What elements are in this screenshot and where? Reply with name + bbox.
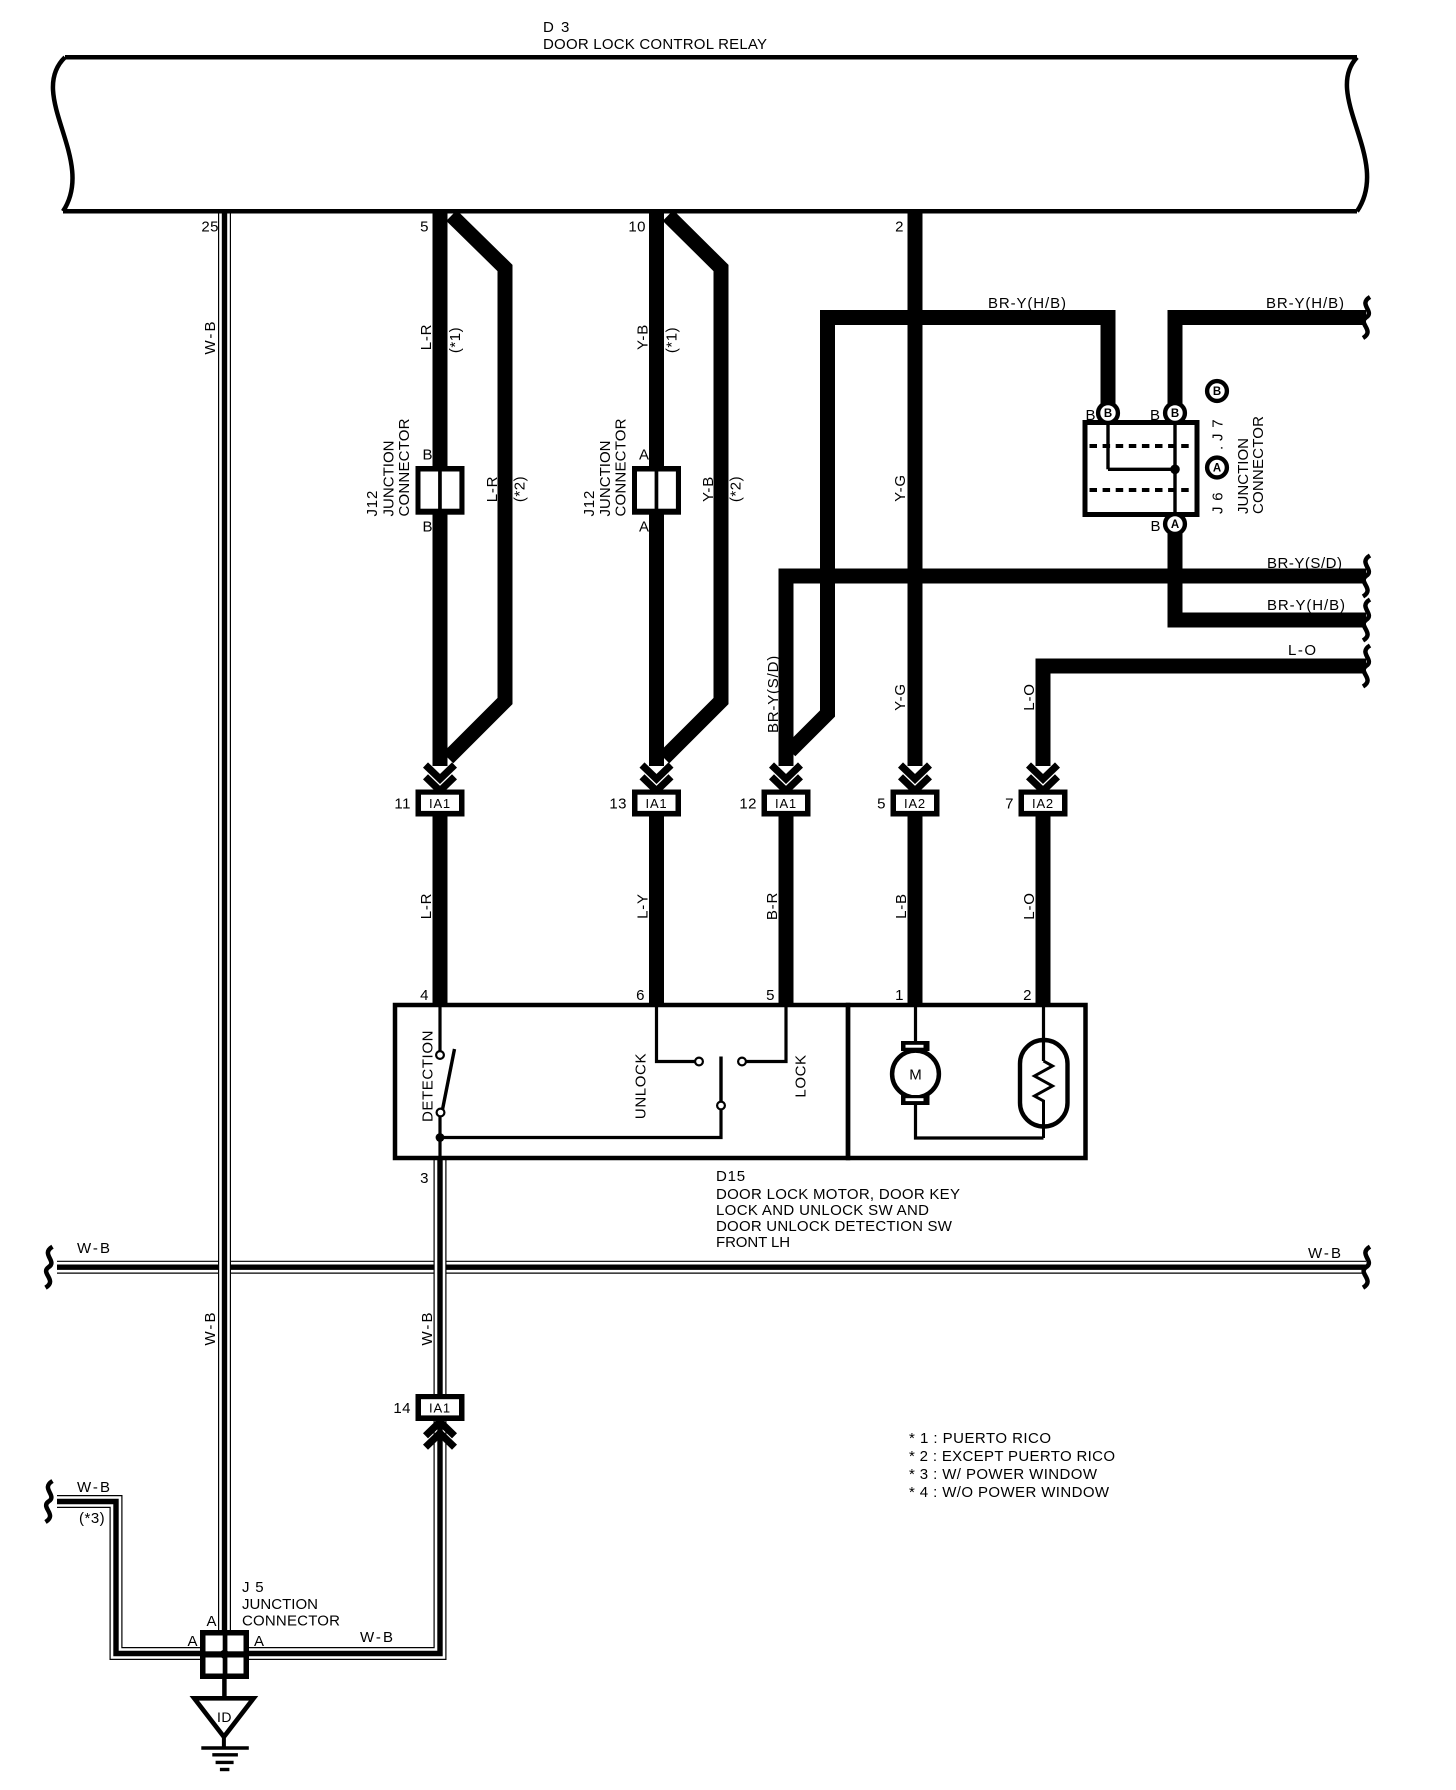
svg-text:W-B: W-B bbox=[77, 1479, 112, 1496]
svg-text:(*3): (*3) bbox=[79, 1510, 105, 1527]
svg-text:A: A bbox=[1171, 519, 1179, 531]
svg-text:A: A bbox=[206, 1613, 216, 1630]
lock-unlock blade bbox=[719, 1057, 722, 1102]
svg-text:DETECTION: DETECTION bbox=[420, 1030, 437, 1122]
svg-text:3: 3 bbox=[420, 1170, 429, 1187]
ground bar 1 bbox=[201, 1746, 249, 1749]
svg-text:BR-Y(S/D): BR-Y(S/D) bbox=[1267, 555, 1343, 572]
arrow up into IA1 pin14 bbox=[426, 1422, 455, 1436]
svg-text:JUNCTION: JUNCTION bbox=[597, 441, 614, 517]
lock-unlock pivot contact bbox=[717, 1102, 725, 1110]
svg-text:M: M bbox=[909, 1067, 922, 1084]
svg-text:Y-B: Y-B bbox=[635, 324, 652, 350]
node detection common bbox=[436, 1133, 445, 1142]
J6/J7 dashed row upper bbox=[1090, 444, 1193, 448]
svg-text:IA1: IA1 bbox=[429, 796, 451, 811]
wire D15 pin2 into resistor bbox=[1042, 1007, 1045, 1061]
motor top brush bbox=[901, 1041, 930, 1051]
svg-text:W-B: W-B bbox=[202, 319, 219, 354]
svg-text:LOCK AND UNLOCK SW AND: LOCK AND UNLOCK SW AND bbox=[716, 1202, 929, 1219]
svg-text:* 2 : EXCEPT PUERTO RICO: * 2 : EXCEPT PUERTO RICO bbox=[909, 1448, 1115, 1465]
svg-text:B: B bbox=[422, 447, 432, 464]
connector IA1 pin 14 bbox=[416, 1394, 465, 1421]
wire BR-Y(H/B) from J7 terminal B to right bbox=[1175, 318, 1366, 405]
relay D3 right break edge bbox=[1347, 57, 1367, 211]
svg-text:(*2): (*2) bbox=[512, 476, 529, 502]
svg-text:BR-Y(H/B): BR-Y(H/B) bbox=[1267, 597, 1346, 614]
relay D3 bottom edge bbox=[63, 209, 1357, 214]
wire D15 pin5 to lock contact bbox=[746, 1007, 786, 1062]
wire W-B from D15 pin 3 down and left to J5 bbox=[247, 1158, 440, 1654]
arrow into IA1 pin13 bbox=[642, 765, 671, 779]
terminal B right of J7 bbox=[1165, 403, 1185, 423]
break symbol right end of W-B bus bbox=[1363, 1247, 1370, 1288]
junction connector J5 box bbox=[200, 1630, 249, 1679]
svg-text:CONNECTOR: CONNECTOR bbox=[242, 1613, 340, 1630]
node J5 center bbox=[220, 1650, 229, 1659]
svg-text:11: 11 bbox=[394, 796, 411, 813]
svg-text:(*2): (*2) bbox=[728, 476, 745, 502]
svg-text:W-B: W-B bbox=[360, 1629, 395, 1646]
svg-text:7: 7 bbox=[1005, 796, 1014, 813]
break symbol left end of (*3) branch bbox=[46, 1481, 53, 1522]
unlock contact bbox=[695, 1058, 703, 1066]
svg-text:2: 2 bbox=[895, 219, 904, 236]
connector IA2 pin 7 bbox=[1019, 790, 1068, 817]
svg-text:B: B bbox=[1171, 408, 1179, 420]
svg-text:W-B: W-B bbox=[1308, 1245, 1343, 1262]
wire W-B from relay pin 25 down to J5 bbox=[218, 209, 231, 1656]
svg-text:W-B: W-B bbox=[202, 1310, 219, 1345]
wire L-B below IA2 pin5 bbox=[908, 814, 923, 1007]
wire J5 to ground triangle bbox=[222, 1679, 227, 1698]
svg-text:DOOR UNLOCK DETECTION SW: DOOR UNLOCK DETECTION SW bbox=[716, 1218, 953, 1235]
svg-text:* 1 : PUERTO RICO: * 1 : PUERTO RICO bbox=[909, 1430, 1051, 1447]
svg-text:(*1): (*1) bbox=[664, 327, 681, 353]
svg-text:L-R: L-R bbox=[418, 893, 435, 920]
svg-text:5: 5 bbox=[877, 796, 886, 813]
svg-text:DOOR LOCK MOTOR, DOOR KEY: DOOR LOCK MOTOR, DOOR KEY bbox=[716, 1186, 960, 1203]
svg-text:CONNECTOR: CONNECTOR bbox=[1250, 416, 1267, 514]
wire D15 pin1 to motor bbox=[914, 1007, 917, 1041]
connector IA1 pin 12 bbox=[762, 790, 811, 817]
svg-text:D 3: D 3 bbox=[543, 19, 571, 36]
detection switch lower contact bbox=[437, 1109, 445, 1117]
break symbol BR-Y(H/B) top right bbox=[1363, 297, 1370, 338]
terminal B left of J6 bbox=[1098, 403, 1118, 423]
wire L-R (*2) branch bbox=[448, 216, 505, 759]
svg-text:J 7: J 7 bbox=[1210, 419, 1227, 441]
wire W-B (*3) branch bottom left bbox=[57, 1502, 202, 1654]
break symbol BR-Y(S/D) right bbox=[1363, 556, 1370, 597]
wire Y-B main from relay pin 10 bbox=[649, 209, 664, 766]
svg-text:25: 25 bbox=[201, 219, 219, 236]
relay D3 top edge bbox=[65, 55, 1357, 60]
svg-text:A: A bbox=[639, 447, 649, 464]
svg-text:IA2: IA2 bbox=[1032, 796, 1054, 811]
J6/J7 dashed row lower bbox=[1090, 488, 1193, 492]
svg-text:* 3 : W/ POWER WINDOW: * 3 : W/ POWER WINDOW bbox=[909, 1466, 1098, 1483]
wire L-R below IA1 pin11 bbox=[433, 814, 448, 1007]
svg-text:D15: D15 bbox=[716, 1168, 746, 1185]
svg-text:W-B: W-B bbox=[419, 1310, 436, 1345]
svg-text:Y-B: Y-B bbox=[700, 476, 717, 502]
svg-text:5: 5 bbox=[766, 987, 775, 1004]
detection switch blade bbox=[442, 1049, 455, 1112]
svg-text:B: B bbox=[1150, 407, 1160, 424]
svg-text:J 5: J 5 bbox=[242, 1579, 264, 1596]
svg-text:B: B bbox=[1213, 386, 1221, 398]
svg-text:BR-Y(S/D): BR-Y(S/D) bbox=[765, 655, 782, 733]
svg-text:12: 12 bbox=[739, 796, 757, 813]
svg-text:CONNECTOR: CONNECTOR bbox=[396, 418, 413, 516]
svg-text:13: 13 bbox=[609, 796, 627, 813]
wire Y-G from relay pin 2 bbox=[908, 209, 923, 766]
svg-text:J12: J12 bbox=[364, 490, 381, 517]
svg-text:14: 14 bbox=[393, 1400, 411, 1417]
svg-text:6: 6 bbox=[636, 987, 645, 1004]
wire L-R main from relay pin 5 bbox=[433, 209, 448, 766]
svg-text:(*1): (*1) bbox=[447, 327, 464, 353]
junction connector J12 right box bbox=[632, 466, 681, 515]
svg-text:JUNCTION: JUNCTION bbox=[381, 441, 398, 517]
svg-text:FRONT LH: FRONT LH bbox=[716, 1234, 790, 1251]
svg-text:Y-G: Y-G bbox=[892, 683, 909, 711]
svg-text:L-O: L-O bbox=[1021, 683, 1038, 710]
svg-text:B: B bbox=[1150, 518, 1160, 535]
resistor obround outline bbox=[1020, 1040, 1068, 1127]
arrow into IA1 pin11 bbox=[426, 765, 455, 779]
wire BR-Y(H/B) from J6 terminal B to pin12 merge bbox=[790, 318, 1108, 752]
wire W-B ground bus horizontal bbox=[57, 1261, 1366, 1274]
svg-text:* 4 : W/O POWER WINDOW: * 4 : W/O POWER WINDOW bbox=[909, 1484, 1110, 1501]
arrow into IA1 pin12 bbox=[772, 765, 801, 779]
svg-text:IA2: IA2 bbox=[904, 796, 926, 811]
svg-text:A: A bbox=[639, 519, 649, 536]
svg-text:J12: J12 bbox=[581, 490, 598, 517]
svg-text:A: A bbox=[1213, 463, 1221, 475]
break symbol BR-Y(H/B) lower right bbox=[1363, 600, 1370, 641]
wire D15 pin6 to unlock contact bbox=[657, 1007, 696, 1062]
ground bar 4 bbox=[220, 1768, 230, 1771]
J6/J7 inner wire horizontal bbox=[1108, 468, 1175, 471]
svg-text:4: 4 bbox=[420, 987, 429, 1004]
svg-text:.: . bbox=[1210, 446, 1227, 450]
wire detection common to lock pivot bbox=[440, 1110, 721, 1138]
ground ID triangle bbox=[194, 1698, 253, 1737]
resistor zigzag bbox=[1035, 1061, 1053, 1138]
terminal A bottom of J6 bbox=[1165, 514, 1185, 534]
component D15 right box bbox=[848, 1005, 1086, 1158]
svg-text:L-R: L-R bbox=[418, 324, 435, 351]
svg-text:IA1: IA1 bbox=[429, 1401, 451, 1416]
J6/J7 inner wire right leg bbox=[1173, 425, 1176, 512]
ground stem bbox=[222, 1736, 226, 1748]
svg-text:W-B: W-B bbox=[77, 1240, 112, 1257]
arrow into IA2 pin5 bbox=[901, 765, 930, 779]
wire D15 pin4 to detection switch bbox=[438, 1007, 441, 1051]
svg-text:CONNECTOR: CONNECTOR bbox=[613, 418, 630, 516]
break symbol L-O right bbox=[1363, 646, 1370, 687]
svg-text:A: A bbox=[254, 1633, 264, 1650]
J6/J7 inner junction dot bbox=[1170, 465, 1180, 475]
svg-text:B-R: B-R bbox=[764, 892, 781, 920]
svg-text:B: B bbox=[1085, 407, 1095, 424]
junction connector J6/J7 box bbox=[1085, 423, 1197, 515]
J6/J7 inner wire left leg bbox=[1106, 425, 1109, 469]
svg-text:2: 2 bbox=[1023, 987, 1032, 1004]
component D15 left box bbox=[395, 1005, 848, 1158]
wire L-O horizontal and down to pin 7 bbox=[1043, 666, 1366, 766]
svg-text:UNLOCK: UNLOCK bbox=[633, 1053, 650, 1119]
svg-text:L-R: L-R bbox=[484, 476, 501, 503]
svg-text:IA1: IA1 bbox=[775, 796, 797, 811]
wire B-R below IA1 pin12 bbox=[779, 814, 794, 1007]
svg-text:BR-Y(H/B): BR-Y(H/B) bbox=[1266, 295, 1345, 312]
svg-text:BR-Y(H/B): BR-Y(H/B) bbox=[988, 295, 1067, 312]
ground bar 2 bbox=[212, 1753, 238, 1756]
svg-text:A: A bbox=[187, 1633, 197, 1650]
svg-text:1: 1 bbox=[895, 987, 904, 1004]
svg-text:L-O: L-O bbox=[1021, 892, 1038, 919]
break symbol left end of W-B bus bbox=[46, 1247, 53, 1288]
svg-text:L-B: L-B bbox=[893, 893, 910, 919]
svg-text:J 6: J 6 bbox=[1210, 492, 1227, 514]
wire L-O below IA2 pin7 bbox=[1036, 814, 1051, 1007]
svg-text:JUNCTION: JUNCTION bbox=[242, 1596, 318, 1613]
wire motor to resistor bottom bbox=[916, 1105, 1044, 1138]
svg-text:IA1: IA1 bbox=[646, 796, 668, 811]
wire L-Y below IA1 pin13 bbox=[649, 814, 664, 1007]
svg-text:B: B bbox=[422, 519, 432, 536]
svg-text:L-Y: L-Y bbox=[635, 893, 652, 919]
wire detection to pin 3 bbox=[438, 1117, 441, 1159]
svg-text:Y-G: Y-G bbox=[892, 474, 909, 502]
svg-text:10: 10 bbox=[628, 219, 646, 236]
wire BR-Y(H/B) from terminal A to right bbox=[1175, 530, 1366, 620]
relay D3 left break edge bbox=[53, 57, 73, 211]
motor bottom brush bbox=[901, 1095, 930, 1105]
svg-text:LOCK: LOCK bbox=[793, 1054, 810, 1097]
svg-text:DOOR LOCK CONTROL RELAY: DOOR LOCK CONTROL RELAY bbox=[543, 36, 767, 53]
connector IA2 pin 5 bbox=[891, 790, 940, 817]
detection switch upper contact bbox=[436, 1051, 444, 1059]
svg-text:ID: ID bbox=[217, 1709, 232, 1725]
ground bar 3 bbox=[216, 1761, 234, 1764]
wire Y-B (*2) branch bbox=[664, 216, 721, 759]
connector IA1 pin 13 bbox=[632, 790, 681, 817]
wire BR-Y(S/D) horizontal and down to pin 12 bbox=[786, 576, 1366, 766]
svg-text:L-O: L-O bbox=[1288, 642, 1317, 659]
svg-text:5: 5 bbox=[420, 219, 429, 236]
motor M1 circle bbox=[892, 1051, 939, 1098]
lock contact bbox=[738, 1058, 746, 1066]
svg-text:B: B bbox=[1104, 408, 1112, 420]
arrow into IA2 pin7 bbox=[1029, 765, 1058, 779]
junction connector J12 left box bbox=[416, 466, 465, 515]
connector IA1 pin 11 bbox=[416, 790, 465, 817]
